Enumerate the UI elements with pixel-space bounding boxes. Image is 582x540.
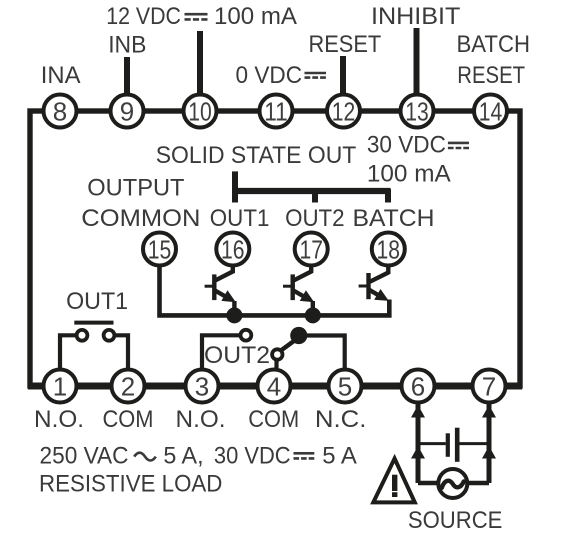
svg-text:RESET: RESET xyxy=(309,31,382,58)
svg-text:OUTPUT: OUTPUT xyxy=(87,175,185,202)
wire: enclosure outline (top bus, left border, right border, bottom bus) xyxy=(28,111,522,386)
svg-text:SOLID STATE OUT: SOLID STATE OUT xyxy=(156,142,357,169)
terminal 14 xyxy=(474,95,507,128)
label: BATCH RESET input name xyxy=(457,31,531,89)
label: RESET input name xyxy=(309,31,382,58)
svg-text:RESISTIVE LOAD: RESISTIVE LOAD xyxy=(39,471,222,498)
svg-text:15: 15 xyxy=(148,235,172,265)
relay contact OUT2 (terminals 3-4-5) xyxy=(202,327,345,370)
svg-text:11: 11 xyxy=(264,97,288,127)
svg-text:N.O.: N.O. xyxy=(34,406,84,433)
terminal 10 xyxy=(184,95,217,128)
junction: Q1 emitter on common bus xyxy=(226,307,242,323)
wire: output common from terminal 15 and emitter bus xyxy=(160,267,390,315)
transistor Q3 (BATCH, terminal 18) xyxy=(359,266,389,301)
wire: source circuit left leg (terminal 6) xyxy=(416,404,421,483)
svg-text:N.O.: N.O. xyxy=(176,406,226,433)
svg-text:100 mA: 100 mA xyxy=(214,3,297,30)
arrow: into terminal 6 xyxy=(411,405,425,418)
terminal 9 xyxy=(111,95,144,128)
label: OUT2 relay contact xyxy=(204,342,270,369)
label: N.C. terminal 5 xyxy=(315,406,367,433)
terminal 3 xyxy=(186,370,219,403)
label: 30 VDC 100 mA rating xyxy=(367,132,469,188)
svg-text:INHIBIT: INHIBIT xyxy=(371,3,461,30)
svg-text:17: 17 xyxy=(299,235,323,265)
svg-text:N.C.: N.C. xyxy=(315,406,367,433)
terminal 11 xyxy=(260,95,293,128)
wire: lead above terminal 10 (12 VDC supply) xyxy=(197,31,203,96)
svg-text:COMMON: COMMON xyxy=(81,205,200,232)
svg-text:3: 3 xyxy=(195,372,209,402)
svg-text:12 VDC: 12 VDC xyxy=(106,3,181,30)
label: OUTPUT COMMON xyxy=(81,175,200,233)
svg-text:0 VDC: 0 VDC xyxy=(236,62,303,89)
arrow: into terminal 7 xyxy=(482,405,496,418)
terminal 1 xyxy=(44,370,77,403)
svg-text:5 A,: 5 A, xyxy=(163,443,203,470)
svg-text:12: 12 xyxy=(332,97,356,127)
relay contact OUT1 (terminals 1-2) xyxy=(60,323,128,370)
terminal 18 xyxy=(372,233,405,266)
transistor Q2 (OUT2, terminal 17) xyxy=(283,266,314,315)
label: 0 VDC common xyxy=(236,62,327,89)
capacitor C1 plates xyxy=(448,428,457,462)
svg-text:BATCH: BATCH xyxy=(457,31,531,58)
terminal 12 xyxy=(327,95,360,128)
svg-text:250 VAC: 250 VAC xyxy=(40,443,129,470)
svg-text:INA: INA xyxy=(41,62,81,89)
svg-text:BATCH: BATCH xyxy=(353,205,435,232)
arrow: capacitor branch right xyxy=(482,446,496,459)
svg-text:30 VDC: 30 VDC xyxy=(367,132,446,159)
svg-text:9: 9 xyxy=(120,97,134,127)
terminal 5 xyxy=(329,370,362,403)
svg-text:14: 14 xyxy=(479,97,503,127)
svg-text:COM: COM xyxy=(248,406,299,433)
svg-text:16: 16 xyxy=(221,235,245,265)
svg-text:OUT2: OUT2 xyxy=(285,205,345,232)
label: OUT2 column xyxy=(285,205,345,232)
transistor Q1 (OUT1, terminal 16) xyxy=(205,266,236,315)
arrow: capacitor branch left xyxy=(411,446,425,459)
svg-text:RESET: RESET xyxy=(457,62,525,89)
label: RESISTIVE LOAD xyxy=(39,471,222,498)
label: INA input name xyxy=(41,62,81,89)
svg-text:4: 4 xyxy=(267,372,281,402)
svg-text:100 mA: 100 mA xyxy=(367,161,451,188)
AC source symbol xyxy=(438,469,467,498)
wire: source bottom branch xyxy=(418,481,489,486)
label: COM terminal 2 xyxy=(103,406,154,433)
terminal 8 xyxy=(44,95,77,128)
terminal 15 xyxy=(143,233,176,266)
terminal 17 xyxy=(295,233,328,266)
bracket: solid state out group xyxy=(235,171,391,202)
label: SOURCE xyxy=(408,507,503,534)
label: INB input name xyxy=(108,32,146,59)
svg-text:13: 13 xyxy=(405,97,429,127)
label: INHIBIT input name xyxy=(371,3,461,30)
label: 250 VAC 5 A, 30 VDC 5 A contact rating xyxy=(40,443,357,470)
label: OUT1 column xyxy=(210,205,270,232)
svg-text:OUT2: OUT2 xyxy=(204,342,270,369)
svg-text:5 A: 5 A xyxy=(322,443,357,470)
terminal 16 xyxy=(216,233,249,266)
terminal 7 xyxy=(473,370,506,403)
svg-text:30 VDC: 30 VDC xyxy=(214,443,291,470)
terminal 6 xyxy=(402,370,435,403)
svg-text:18: 18 xyxy=(377,235,401,265)
label: N.O. terminal 3 xyxy=(176,406,226,433)
svg-text:SOURCE: SOURCE xyxy=(408,507,503,534)
svg-text:10: 10 xyxy=(188,97,212,127)
svg-text:7: 7 xyxy=(482,372,496,402)
wire: lead above terminal 9 (INB) xyxy=(124,57,130,96)
label: COM terminal 4 xyxy=(248,406,299,433)
wire: source circuit right leg (terminal 7) xyxy=(487,404,492,483)
warning triangle xyxy=(373,459,415,503)
label: 12 VDC 100 mA supply rating xyxy=(106,3,297,30)
wire: lead above terminal 13 (INHIBIT) xyxy=(414,28,420,96)
label: SOLID STATE OUT heading xyxy=(156,142,357,169)
svg-text:INB: INB xyxy=(108,32,146,59)
terminal 4 xyxy=(258,370,291,403)
svg-text:2: 2 xyxy=(121,372,135,402)
svg-text:5: 5 xyxy=(338,372,352,402)
svg-text:COM: COM xyxy=(103,406,154,433)
junction: Q2 emitter on common bus xyxy=(305,307,321,323)
terminal 13 xyxy=(401,95,434,128)
label: N.O. terminal 1 xyxy=(34,406,84,433)
svg-text:OUT1: OUT1 xyxy=(66,288,128,315)
label: OUT1 relay contact xyxy=(66,288,128,315)
wire: lead above terminal 12 (RESET) xyxy=(340,56,346,96)
svg-text:8: 8 xyxy=(53,97,67,127)
svg-text:OUT1: OUT1 xyxy=(210,205,270,232)
svg-text:6: 6 xyxy=(411,372,425,402)
terminal 2 xyxy=(112,370,145,403)
label: BATCH column xyxy=(353,205,435,232)
svg-text:1: 1 xyxy=(53,372,67,402)
capacitor branch wires xyxy=(418,442,489,445)
